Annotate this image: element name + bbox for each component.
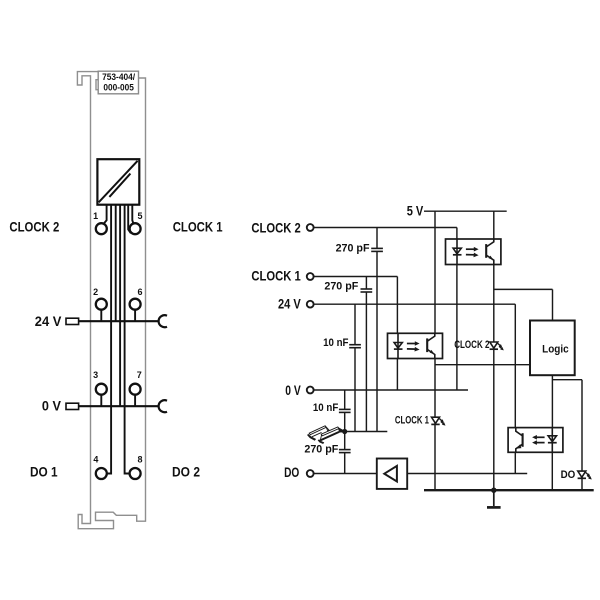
svg-text:DO: DO (561, 469, 576, 481)
svg-text:CLOCK 2: CLOCK 2 (9, 218, 59, 234)
svg-text:CLOCK 1: CLOCK 1 (251, 267, 301, 283)
svg-text:270 pF: 270 pF (304, 443, 338, 455)
svg-text:1: 1 (93, 211, 98, 221)
svg-text:5 V: 5 V (407, 203, 424, 219)
svg-text:24 V: 24 V (35, 313, 62, 329)
svg-text:CLOCK 1: CLOCK 1 (395, 415, 429, 427)
svg-text:3: 3 (93, 370, 98, 380)
svg-text:10 nF: 10 nF (313, 402, 339, 414)
svg-text:270 pF: 270 pF (324, 281, 358, 293)
svg-text:5: 5 (137, 211, 142, 221)
svg-text:753-404/: 753-404/ (102, 72, 135, 82)
svg-text:Logic: Logic (542, 343, 569, 355)
svg-text:10 nF: 10 nF (323, 337, 349, 349)
svg-text:8: 8 (137, 455, 142, 465)
svg-text:CLOCK 1: CLOCK 1 (173, 218, 223, 234)
svg-text:CLOCK 2: CLOCK 2 (454, 339, 489, 351)
svg-text:7: 7 (137, 370, 142, 380)
svg-text:CLOCK 2: CLOCK 2 (251, 219, 301, 235)
svg-text:6: 6 (137, 287, 142, 297)
svg-text:DO 2: DO 2 (172, 464, 200, 480)
svg-text:24 V: 24 V (278, 296, 301, 312)
svg-text:270 pF: 270 pF (336, 243, 370, 255)
svg-text:DO: DO (284, 464, 299, 480)
svg-text:4: 4 (93, 455, 98, 465)
svg-text:000-005: 000-005 (103, 82, 134, 92)
svg-text:0 V: 0 V (42, 398, 62, 414)
svg-text:2: 2 (93, 287, 98, 297)
svg-text:DO 1: DO 1 (30, 464, 58, 480)
svg-text:0 V: 0 V (285, 382, 301, 398)
